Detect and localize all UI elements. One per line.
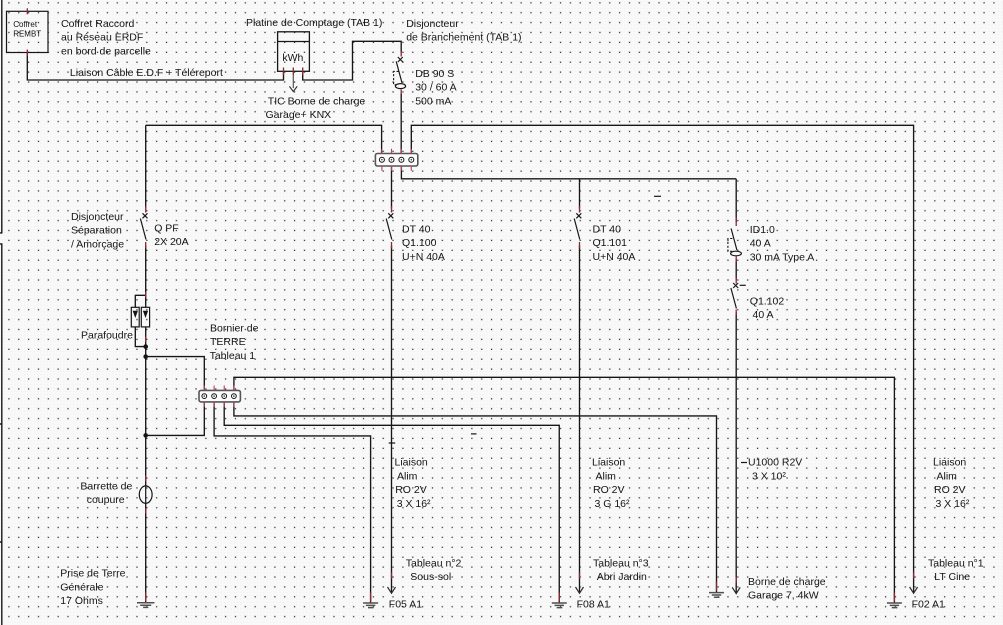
svg-text:Liaison: Liaison (592, 457, 625, 469)
svg-text:F08 A1: F08 A1 (577, 599, 610, 611)
svg-text:Tableau n°1: Tableau n°1 (928, 558, 984, 570)
svg-text:U+N 40A: U+N 40A (593, 251, 636, 263)
svg-text:3 X 16²: 3 X 16² (936, 498, 970, 510)
svg-text:kWh: kWh (282, 52, 303, 64)
svg-text:Tableau n°3: Tableau n°3 (593, 558, 649, 570)
svg-text:Q PF: Q PF (154, 223, 179, 235)
svg-text:Alim: Alim (397, 470, 418, 482)
svg-text:40 A: 40 A (750, 238, 771, 250)
svg-text:Garage+ KNX: Garage+ KNX (266, 109, 332, 121)
svg-text:Borne de charge: Borne de charge (748, 576, 826, 588)
svg-text:Alim: Alim (937, 470, 958, 482)
svg-text:2X 20A: 2X 20A (154, 236, 188, 248)
svg-text:U1000 R2V: U1000 R2V (748, 457, 802, 469)
svg-text:Liaison Câble E.D.F + Télérepo: Liaison Câble E.D.F + Téléreport (70, 67, 223, 79)
svg-text:/ Amorçage: / Amorçage (71, 238, 124, 250)
svg-text:3 X 10²: 3 X 10² (752, 470, 786, 482)
svg-text:Garage 7, 4kW: Garage 7, 4kW (748, 589, 819, 601)
svg-text:coupure: coupure (87, 494, 125, 506)
svg-text:Q1.100: Q1.100 (402, 237, 437, 249)
svg-text:Tableau 1: Tableau 1 (210, 350, 256, 362)
svg-text:40 A: 40 A (753, 309, 774, 321)
svg-text:Disjoncteur: Disjoncteur (71, 211, 124, 223)
svg-text:RO 2V: RO 2V (593, 484, 625, 496)
svg-text:Barrette de: Barrette de (80, 480, 132, 492)
svg-text:DT 40: DT 40 (593, 223, 622, 235)
svg-text:500 mA: 500 mA (415, 95, 451, 107)
svg-text:3 X 16²: 3 X 16² (397, 498, 431, 510)
svg-text:en bord de parcelle: en bord de parcelle (61, 45, 151, 57)
svg-text:17 Ohms: 17 Ohms (60, 595, 103, 607)
svg-text:Sous-sol: Sous-sol (410, 571, 451, 583)
svg-text:DT 40: DT 40 (402, 223, 431, 235)
svg-text:Prise de Terre: Prise de Terre (60, 568, 125, 580)
svg-text:Coffret Raccord: Coffret Raccord (61, 18, 134, 30)
svg-text:30 / 60 A: 30 / 60 A (415, 82, 456, 94)
svg-text:Disjoncteur: Disjoncteur (406, 18, 459, 30)
svg-text:de Branchement (TAB 1): de Branchement (TAB 1) (406, 32, 521, 44)
svg-text:Parafoudre: Parafoudre (81, 329, 133, 341)
svg-text:Alim: Alim (596, 470, 617, 482)
svg-text:Générale: Générale (60, 581, 103, 593)
svg-text:30 mA Type A: 30 mA Type A (750, 251, 815, 263)
svg-text:TERRE: TERRE (210, 336, 246, 348)
svg-text:Abri Jardin: Abri Jardin (597, 571, 647, 583)
svg-text:F02 A1: F02 A1 (912, 599, 945, 611)
svg-text:3 G 16²: 3 G 16² (595, 498, 631, 510)
svg-text:Séparation: Séparation (71, 225, 122, 237)
svg-text:Platine de Comptage (TAB 1): Platine de Comptage (TAB 1) (246, 17, 382, 29)
svg-text:au Réseau ERDF: au Réseau ERDF (61, 32, 143, 44)
svg-text:TIC Borne de charge: TIC Borne de charge (268, 96, 366, 108)
svg-text:RO 2V: RO 2V (934, 484, 966, 496)
svg-text:F05 A1: F05 A1 (389, 599, 422, 611)
svg-text:Q1.102: Q1.102 (750, 296, 785, 308)
svg-text:Tableau n°2: Tableau n°2 (406, 558, 462, 570)
svg-text:Q1.101: Q1.101 (593, 237, 628, 249)
svg-text:Liaison: Liaison (933, 457, 966, 469)
svg-text:ID1.0: ID1.0 (750, 224, 775, 236)
svg-text:LT Cine: LT Cine (934, 571, 970, 583)
svg-text:REMBT: REMBT (13, 30, 41, 39)
svg-text:Coffret: Coffret (13, 20, 38, 29)
svg-text:DB 90 S: DB 90 S (415, 68, 454, 80)
svg-text:RO 2V: RO 2V (395, 484, 427, 496)
svg-text:Liaison: Liaison (395, 457, 428, 469)
svg-text:U+N 40A: U+N 40A (402, 251, 445, 263)
svg-text:Bornier de: Bornier de (210, 323, 259, 335)
